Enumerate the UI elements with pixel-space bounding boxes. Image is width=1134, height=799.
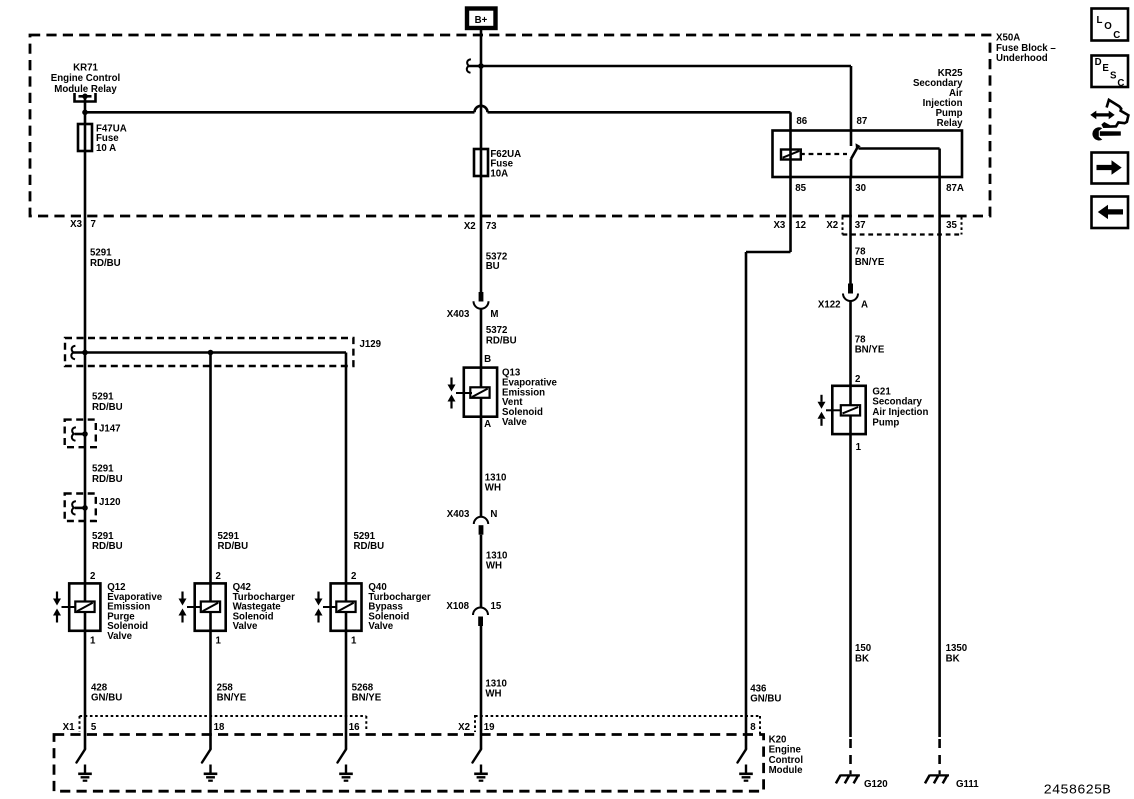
svg-text:86: 86 xyxy=(796,116,807,127)
svg-text:RD/BU: RD/BU xyxy=(92,474,123,485)
svg-text:M: M xyxy=(490,309,498,320)
svg-text:10A: 10A xyxy=(490,169,508,180)
svg-text:BN/YE: BN/YE xyxy=(352,692,382,703)
svg-text:WH: WH xyxy=(486,561,502,572)
svg-text:X3: X3 xyxy=(70,219,82,230)
svg-text:B: B xyxy=(484,354,491,365)
svg-text:X1: X1 xyxy=(63,722,75,733)
svg-text:1: 1 xyxy=(856,442,862,453)
svg-text:X3: X3 xyxy=(773,220,785,231)
svg-text:RD/BU: RD/BU xyxy=(218,541,249,552)
svg-text:GN/BU: GN/BU xyxy=(750,694,781,705)
svg-text:19: 19 xyxy=(484,722,495,733)
svg-text:S: S xyxy=(1110,71,1117,82)
svg-text:Valve: Valve xyxy=(233,621,258,632)
svg-text:Valve: Valve xyxy=(502,417,527,428)
svg-text:30: 30 xyxy=(855,183,866,194)
svg-text:Pump: Pump xyxy=(872,417,899,428)
svg-text:X2: X2 xyxy=(826,220,838,231)
svg-text:12: 12 xyxy=(795,220,806,231)
svg-text:X2: X2 xyxy=(458,722,470,733)
svg-text:85: 85 xyxy=(795,183,806,194)
svg-text:WH: WH xyxy=(485,483,501,494)
svg-text:BN/YE: BN/YE xyxy=(217,692,247,703)
svg-text:Module Relay: Module Relay xyxy=(54,84,117,95)
svg-text:RD/BU: RD/BU xyxy=(92,402,123,413)
svg-text:Valve: Valve xyxy=(107,631,132,642)
svg-text:2: 2 xyxy=(90,571,95,582)
svg-text:Relay: Relay xyxy=(937,118,963,129)
svg-text:BU: BU xyxy=(486,261,500,272)
svg-text:2: 2 xyxy=(855,374,860,385)
svg-text:5: 5 xyxy=(91,722,97,733)
svg-text:O: O xyxy=(1104,21,1112,32)
svg-text:BN/YE: BN/YE xyxy=(855,257,885,268)
svg-text:37: 37 xyxy=(855,220,866,231)
svg-text:1: 1 xyxy=(351,635,357,646)
svg-text:5372: 5372 xyxy=(486,325,508,336)
svg-text:J147: J147 xyxy=(99,423,121,434)
svg-text:Underhood: Underhood xyxy=(996,53,1048,64)
svg-text:87A: 87A xyxy=(946,183,964,194)
svg-text:1: 1 xyxy=(216,635,222,646)
svg-text:2: 2 xyxy=(351,571,356,582)
svg-text:D: D xyxy=(1095,57,1102,68)
svg-text:BK: BK xyxy=(946,654,960,665)
svg-text:Module: Module xyxy=(769,765,804,776)
svg-text:J120: J120 xyxy=(99,497,121,508)
svg-text:C: C xyxy=(1117,78,1124,89)
svg-text:RD/BU: RD/BU xyxy=(486,335,517,346)
svg-text:X108: X108 xyxy=(446,601,469,612)
svg-text:7: 7 xyxy=(91,219,96,230)
svg-text:18: 18 xyxy=(214,722,225,733)
svg-text:L: L xyxy=(1097,15,1103,26)
svg-text:5291: 5291 xyxy=(90,247,112,258)
svg-text:E: E xyxy=(1102,63,1109,74)
svg-text:RD/BU: RD/BU xyxy=(92,541,123,552)
svg-text:35: 35 xyxy=(946,220,957,231)
svg-text:KR71: KR71 xyxy=(73,62,98,73)
svg-text:15: 15 xyxy=(491,601,502,612)
svg-text:RD/BU: RD/BU xyxy=(90,258,121,269)
svg-text:10 A: 10 A xyxy=(96,143,116,154)
svg-text:X2: X2 xyxy=(464,221,476,232)
svg-text:C: C xyxy=(1113,30,1120,41)
svg-text:X403: X403 xyxy=(447,509,470,520)
svg-text:87: 87 xyxy=(857,116,868,127)
svg-text:B+: B+ xyxy=(475,15,488,26)
svg-text:1: 1 xyxy=(90,635,96,646)
svg-text:16: 16 xyxy=(349,722,360,733)
svg-text:X50A: X50A xyxy=(996,32,1020,43)
svg-text:2: 2 xyxy=(216,571,221,582)
svg-text:73: 73 xyxy=(486,221,497,232)
svg-text:RD/BU: RD/BU xyxy=(354,541,385,552)
svg-text:Valve: Valve xyxy=(368,621,393,632)
svg-text:BK: BK xyxy=(855,654,869,665)
svg-text:A: A xyxy=(861,300,868,311)
svg-text:BN/YE: BN/YE xyxy=(855,345,885,356)
svg-text:WH: WH xyxy=(485,689,501,700)
svg-text:Engine Control: Engine Control xyxy=(51,73,120,84)
svg-text:G111: G111 xyxy=(956,779,979,790)
svg-text:X122: X122 xyxy=(818,300,841,311)
svg-text:2458625B: 2458625B xyxy=(1044,783,1111,799)
svg-text:GN/BU: GN/BU xyxy=(91,692,122,703)
svg-text:J129: J129 xyxy=(360,339,382,350)
svg-text:G120: G120 xyxy=(864,779,888,790)
svg-text:N: N xyxy=(490,509,497,520)
svg-text:X403: X403 xyxy=(447,309,470,320)
svg-text:A: A xyxy=(484,419,491,430)
svg-text:8: 8 xyxy=(750,722,756,733)
